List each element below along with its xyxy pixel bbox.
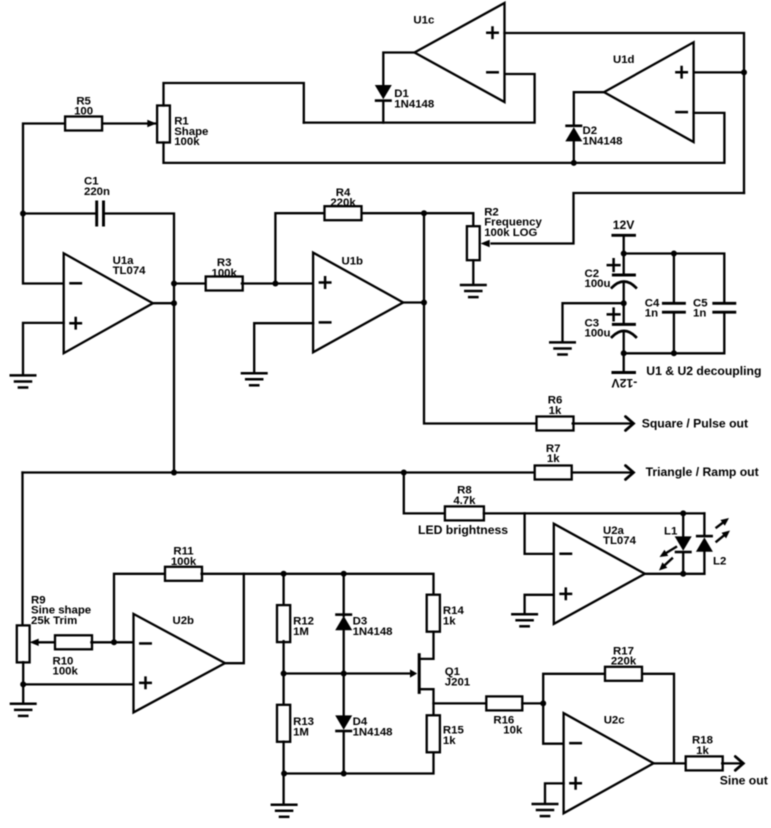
wire U1d output to rail — [694, 71, 744, 73]
capacitor C1 — [97, 202, 104, 225]
wire D1 cathode rail to U1c inverting input — [304, 74, 535, 123]
op-amp U2a label — [603, 525, 637, 547]
minus marker U1a — [71, 282, 81, 285]
label R3 — [212, 257, 238, 279]
label Q1 — [445, 666, 471, 688]
label R11 — [171, 546, 197, 568]
wire R3 right to U1b non-inverting — [242, 282, 313, 284]
arrowhead R2 wiper — [481, 240, 490, 247]
label R4 — [330, 187, 356, 209]
wire C4 bottom — [673, 314, 675, 354]
svg-text:220n: 220n — [84, 186, 110, 198]
plus marker U1a — [71, 318, 81, 328]
plus marker U2c — [570, 778, 580, 788]
node D4 bottom — [341, 771, 347, 777]
resistor R15 — [427, 715, 440, 752]
svg-text:U2b: U2b — [173, 615, 195, 627]
potentiometer R1 — [157, 106, 170, 143]
wire R1 top to D1 cathode rail — [164, 83, 304, 123]
wire C1 right to U1a output node — [105, 214, 174, 473]
node R9 ground junction — [20, 681, 26, 687]
node C4 bottom — [671, 350, 677, 356]
node L1 top — [680, 510, 686, 516]
LED L1 emission arrow 1 — [660, 547, 677, 557]
op-amp U1c label — [413, 14, 434, 26]
wire U1c output to D1 anode — [383, 53, 414, 86]
wire U1a output — [153, 302, 174, 304]
svg-text:1k: 1k — [547, 453, 560, 465]
wire L1 top lead — [682, 513, 684, 536]
arrowhead R1 wiper — [147, 120, 156, 127]
minus marker U1c — [487, 71, 497, 74]
plus marker C2 — [608, 259, 620, 271]
label D2 — [583, 125, 623, 147]
label L1 — [664, 525, 678, 537]
label 12V — [613, 218, 636, 232]
wire R12 bottom lead — [282, 641, 284, 673]
label Triangle Ramp out — [646, 465, 759, 479]
label C4 — [645, 297, 660, 319]
potentiometer R2 — [467, 226, 480, 260]
plus marker C3 — [608, 309, 620, 321]
node triangle rail and U1a output — [171, 470, 177, 476]
label R7 — [546, 443, 561, 465]
plus marker U1b — [320, 277, 330, 287]
wire C4 top — [673, 254, 675, 303]
op-amp U1a — [64, 253, 153, 353]
wire R11 left branch — [114, 574, 165, 643]
label R8 — [453, 485, 476, 507]
label -12V — [611, 376, 638, 390]
wire U2b non-inverting — [23, 683, 133, 685]
plus marker U1c — [487, 28, 497, 38]
svg-text:1M: 1M — [293, 626, 309, 638]
svg-text:U1 & U2 decoupling: U1 & U2 decoupling — [646, 364, 761, 378]
svg-text:U2c: U2c — [604, 714, 625, 726]
svg-text:1N4148: 1N4148 — [583, 135, 623, 147]
label R9 — [31, 594, 91, 627]
label D4 — [353, 716, 393, 738]
wire U2a non-inverting to ground — [525, 595, 554, 613]
wire U1b output rail down — [424, 213, 537, 423]
resistor R12 — [277, 605, 290, 642]
diode D1 — [375, 85, 392, 102]
wire R9 bottom to ground — [22, 662, 24, 702]
capacitor C5 — [714, 303, 735, 312]
label R1 — [174, 116, 208, 149]
ground U1a — [11, 375, 36, 387]
svg-text:220k: 220k — [330, 197, 356, 209]
wire C3 bottom to -12V — [623, 331, 625, 372]
svg-text:Triangle / Ramp out: Triangle / Ramp out — [646, 465, 759, 479]
transistor Q1 gate bar — [418, 653, 421, 694]
resistor R13 — [277, 705, 290, 742]
power bar -12V — [613, 371, 635, 374]
diode D4 — [335, 715, 352, 732]
node U1b output — [421, 300, 427, 306]
svg-text:100k LOG: 100k LOG — [484, 227, 537, 239]
wire R17 right to output — [642, 674, 674, 764]
label R5 — [74, 95, 93, 117]
svg-text:10k: 10k — [503, 725, 523, 737]
ground diode ladder — [272, 805, 297, 817]
resistor R3 — [206, 277, 243, 291]
LED L1 — [675, 536, 692, 553]
wire R5 to R1 wiper — [102, 122, 155, 124]
svg-text:LED brightness: LED brightness — [418, 523, 508, 537]
svg-text:1k: 1k — [443, 615, 456, 627]
svg-text:TL074: TL074 — [603, 535, 637, 547]
wire U2a output to LEDs — [645, 573, 705, 575]
resistor R14 — [427, 595, 440, 632]
wire R8 branch — [404, 473, 445, 514]
capacitor C2 — [612, 275, 636, 288]
svg-text:L1: L1 — [664, 525, 678, 537]
arrowhead sine out — [735, 757, 743, 771]
wire R8 to LED rail — [484, 512, 705, 514]
label D3 — [353, 616, 393, 638]
label R13 — [293, 716, 314, 738]
wire R16 branch — [434, 702, 487, 704]
node R7 R8 branch — [401, 470, 407, 476]
svg-text:Sine out: Sine out — [720, 774, 768, 788]
op-amp U2b — [134, 614, 226, 713]
label C3 — [585, 317, 611, 339]
wire R4 left branch — [275, 213, 324, 283]
svg-text:TL074: TL074 — [113, 265, 147, 277]
svg-text:1k: 1k — [696, 745, 709, 757]
svg-text:100k: 100k — [174, 136, 200, 148]
wire node down to U2c inverting — [543, 703, 563, 743]
svg-text:25k Trim: 25k Trim — [31, 615, 77, 627]
label R18 — [692, 735, 713, 757]
op-amp U1b label — [342, 255, 364, 267]
wire R6 to output arrow — [573, 422, 632, 424]
plus marker U2a — [561, 589, 571, 599]
minus marker U2b — [140, 642, 150, 645]
resistor R5 — [65, 117, 102, 131]
ground U1b — [242, 373, 267, 385]
wire R18 to sine out arrow — [722, 762, 742, 764]
wire R4 right to R2 top — [362, 213, 474, 227]
wire R12 top lead — [282, 574, 284, 606]
label R16 value — [503, 725, 523, 737]
ground R9 — [11, 704, 36, 716]
wire D4 top lead — [343, 674, 345, 716]
wire R9 wiper to R10 — [39, 641, 56, 643]
op-amp U2b label — [173, 615, 195, 627]
ground decoupling — [550, 342, 575, 354]
ground U2c — [533, 804, 558, 816]
svg-text:100u: 100u — [585, 328, 611, 340]
resistor R18 — [686, 756, 723, 770]
minus marker U1d — [676, 111, 686, 114]
LED L2 — [696, 535, 713, 552]
wire R1 bottom rail to U1d inverting input — [164, 113, 725, 163]
wire R14 top lead part of R11 rail — [432, 594, 434, 597]
wire U2c output to R18 — [654, 762, 687, 764]
wire Q1 source to R15 and R16 — [421, 689, 434, 715]
wire D2 anode to rail — [573, 142, 575, 163]
wire D1 cathode to rail — [382, 102, 384, 123]
diode D2 — [565, 125, 582, 142]
arrowhead square out — [626, 417, 634, 431]
svg-text:U1c: U1c — [413, 14, 434, 26]
ground R2 — [461, 285, 486, 297]
plus marker U2b — [140, 678, 150, 688]
wire D3 bottom lead — [343, 630, 345, 673]
svg-text:U1d: U1d — [613, 54, 635, 66]
resistor R6 — [537, 417, 574, 431]
wire gate rail — [284, 672, 412, 674]
svg-text:220k: 220k — [611, 656, 637, 668]
node gate rail left — [281, 671, 287, 677]
op-amp U1a label — [113, 255, 147, 277]
wire R7 to output arrow — [572, 471, 632, 473]
wire left rail down to R9 — [21, 473, 23, 626]
svg-text:U1b: U1b — [342, 255, 364, 267]
node -12V rail — [621, 350, 627, 356]
resistor R11 — [165, 567, 202, 581]
label C5 — [693, 297, 708, 319]
node R3 branch — [171, 281, 177, 287]
wire U1c non-inverting input top rail — [505, 33, 745, 193]
node D2 anode junction — [571, 160, 577, 166]
wire R13 top lead — [282, 674, 284, 706]
plus marker U1d — [676, 67, 686, 77]
minus marker U2a — [561, 553, 571, 556]
svg-text:-12V: -12V — [611, 376, 638, 390]
wire -12V rail to C4 C5 bottom — [624, 314, 725, 354]
wire C2 to C3 — [623, 282, 625, 323]
capacitor C3 — [612, 324, 636, 337]
resistor R7 — [535, 466, 572, 480]
wire U2a inverting input drop — [525, 513, 554, 554]
svg-text:100k: 100k — [171, 556, 197, 568]
power bar 12V — [613, 234, 635, 237]
svg-text:1k: 1k — [549, 405, 562, 417]
svg-text:1M: 1M — [293, 726, 309, 738]
resistor R4 — [325, 206, 362, 220]
wire U1a non-inverting to ground — [23, 323, 64, 374]
wire R13 bottom to ground — [282, 742, 284, 804]
wire D3 top lead — [343, 574, 345, 616]
diode D3 — [335, 613, 352, 630]
wire R11 right rail — [202, 574, 434, 595]
wire L2 bottom lead — [703, 552, 705, 574]
node C4 top — [671, 251, 677, 257]
label C1 — [84, 176, 110, 198]
label R15 — [443, 725, 465, 747]
resistor R16 — [486, 696, 522, 710]
arrowhead triangle out — [626, 466, 634, 480]
minus marker U2c — [570, 742, 580, 745]
resistor R8 — [445, 506, 484, 520]
svg-text:1n: 1n — [693, 308, 706, 320]
arrowhead Q1 gate — [410, 669, 417, 677]
minus marker U1b — [320, 321, 330, 324]
LED L2 emission arrow 1 — [717, 518, 730, 528]
op-amp U1d — [604, 42, 694, 142]
wire R3 left — [174, 282, 207, 284]
node R16 R17 U2c junction — [540, 700, 546, 706]
label Square Pulse out — [642, 416, 748, 430]
svg-text:1N4148: 1N4148 — [353, 726, 393, 738]
wire 12V to C2 — [623, 235, 625, 273]
svg-text:L2: L2 — [713, 556, 726, 568]
node R11 branch — [111, 639, 117, 645]
wire U1d output to D2 cathode — [574, 92, 604, 124]
wire node up to R17 — [543, 674, 605, 704]
svg-text:J201: J201 — [445, 677, 471, 689]
label L2 — [713, 556, 726, 568]
op-amp U1b — [313, 253, 403, 353]
label D1 — [394, 88, 434, 110]
label R10 — [53, 655, 79, 677]
svg-text:100k: 100k — [53, 666, 79, 678]
node R4 output junction — [421, 210, 427, 216]
ground U2a — [512, 614, 537, 626]
label R16 — [493, 714, 514, 726]
label R2 — [484, 206, 542, 239]
wire frequency feed to R2 wiper — [492, 193, 745, 244]
op-amp U1d label — [613, 54, 635, 66]
resistor R10 — [55, 635, 92, 649]
wire D4 bottom lead — [343, 733, 345, 774]
wire triangle rail — [23, 471, 535, 473]
wire U2c non-inverting to ground — [545, 783, 564, 802]
node U1d output junction — [741, 69, 747, 75]
node C1 left junction — [20, 211, 26, 217]
node 12V rail — [621, 251, 627, 257]
svg-text:100k: 100k — [212, 268, 238, 280]
label R14 — [443, 605, 465, 627]
wire R14 bottom to Q1 drain — [421, 632, 434, 659]
potentiometer R9 — [17, 625, 30, 662]
svg-text:1N4148: 1N4148 — [394, 98, 434, 110]
LED L1 emission arrow 2 — [659, 559, 672, 571]
wire C1 left — [23, 212, 95, 214]
wire R2 bottom to ground — [472, 260, 474, 283]
svg-text:4.7k: 4.7k — [453, 495, 476, 507]
wire U2b output up — [225, 574, 244, 663]
node R4 branch — [272, 281, 278, 287]
label LED brightness — [418, 523, 508, 537]
node D3 D4 junction — [341, 671, 347, 677]
wire mid to ground — [563, 303, 624, 341]
svg-text:1n: 1n — [645, 308, 658, 320]
wire bottom rail — [284, 752, 433, 773]
label R12 — [293, 616, 314, 638]
wire U1b output to R6 — [403, 301, 424, 303]
svg-text:100: 100 — [74, 106, 93, 118]
wire left rail from R5 to U1a inverting input — [23, 124, 65, 284]
svg-text:1k: 1k — [443, 735, 456, 747]
node 0V between C2 C3 — [621, 300, 627, 306]
node D3 top — [341, 571, 347, 577]
wire U1b inverting to ground — [254, 323, 313, 372]
op-amp U2a — [554, 524, 645, 624]
svg-text:100u: 100u — [585, 278, 611, 290]
label U1 U2 decoupling — [646, 364, 761, 378]
op-amp U2c label — [604, 714, 625, 726]
capacitor C4 — [663, 303, 684, 312]
op-amp U1c — [415, 3, 505, 102]
svg-text:Square / Pulse out: Square / Pulse out — [642, 416, 748, 430]
node U1a output — [171, 300, 177, 306]
op-amp U2c — [564, 713, 654, 813]
node L1 bottom — [680, 571, 686, 577]
svg-text:1N4148: 1N4148 — [353, 626, 393, 638]
label Sine out — [720, 774, 768, 788]
wire L1 bottom lead — [682, 554, 684, 574]
resistor R17 — [605, 667, 642, 681]
wire 12V rail to C4 C5 — [624, 254, 725, 303]
label C2 — [585, 268, 611, 290]
LED L2 emission arrow 2 — [717, 531, 731, 542]
wire L2 top lead — [703, 513, 705, 534]
label R6 — [548, 395, 563, 417]
wire R10 to U2b inverting — [91, 641, 133, 643]
node R12 top — [281, 571, 287, 577]
wire R16 to node — [522, 702, 543, 704]
label R17 — [611, 645, 637, 667]
arrowhead R9 wiper — [30, 639, 39, 646]
svg-text:12V: 12V — [613, 218, 636, 232]
node bottom rail left — [281, 771, 287, 777]
